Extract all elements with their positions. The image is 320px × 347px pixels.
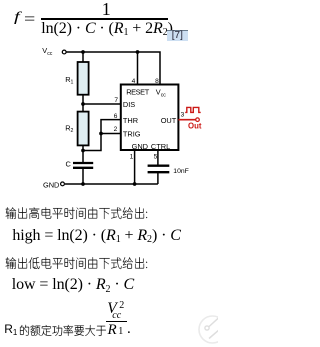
svg-text:1: 1 <box>130 153 134 160</box>
wire pin1 GND <box>134 150 136 184</box>
wire 10nF bottom <box>157 172 159 184</box>
svg-text:1: 1 <box>71 79 74 85</box>
terminal Vcc <box>62 50 66 54</box>
IC U1 555 timer box <box>121 85 179 151</box>
resistor R1 <box>78 62 89 95</box>
junction node C/GND rail <box>81 182 85 186</box>
svg-text:10nF: 10nF <box>173 168 189 175</box>
capacitor 10nF plates <box>148 166 170 173</box>
wire Vcc top rail <box>66 52 160 85</box>
svg-text:2: 2 <box>71 128 74 134</box>
terminal GND <box>61 182 65 186</box>
svg-text:RESET: RESET <box>126 87 150 96</box>
chinese line 3: R1 power rating must exceed <box>4 322 17 336</box>
circuit schematic <box>0 0 218 347</box>
svg-text:GND: GND <box>132 142 148 151</box>
svg-text:Out: Out <box>188 121 202 130</box>
formula low <box>12 276 134 294</box>
svg-text:8: 8 <box>155 78 159 85</box>
junction node pin1/GND rail <box>133 182 137 186</box>
wire DIS pin7 <box>83 103 121 105</box>
svg-text:cc: cc <box>47 51 53 57</box>
reference [7] <box>167 30 188 41</box>
formula Vcc^2 / R1 fraction <box>107 300 116 318</box>
svg-text:4: 4 <box>132 78 136 85</box>
svg-text:GND: GND <box>43 181 59 190</box>
wire pin5 CTRL <box>157 150 159 165</box>
wire R2 bottom to cap <box>82 145 84 162</box>
junction node TRIG branch <box>99 132 103 136</box>
chinese line 2: output low time given by <box>5 256 155 271</box>
wire TRIG pin2 <box>101 133 121 135</box>
junction node Vcc/pin4 <box>136 50 140 54</box>
svg-text:cc: cc <box>161 92 167 98</box>
wire pin4 drop <box>137 52 139 85</box>
svg-text:7: 7 <box>114 97 118 104</box>
svg-text:CTRL: CTRL <box>151 142 170 151</box>
wire R1 top <box>82 52 84 62</box>
wire GND rail <box>65 183 158 185</box>
wire R1-R2 <box>82 95 84 112</box>
svg-text:TRIG: TRIG <box>123 130 141 139</box>
svg-text:THR: THR <box>123 116 138 125</box>
formula f = 1/(ln(2)*C*(R1+2R2)) <box>14 10 20 26</box>
junction node R1/R2/DIS <box>81 102 85 106</box>
svg-text:5: 5 <box>154 153 158 160</box>
wire OUT pin3 red <box>178 119 195 121</box>
wire THR branch <box>83 120 121 151</box>
capacitor C plates <box>73 163 93 168</box>
wire C bottom <box>82 168 84 184</box>
terminal Out red <box>196 118 200 122</box>
svg-text:C: C <box>66 159 72 168</box>
svg-text:3: 3 <box>181 112 185 119</box>
chinese line 1: output high time given by <box>5 206 155 221</box>
faint pencil icon bottom-right corner <box>185 300 218 347</box>
svg-text:2: 2 <box>114 126 118 133</box>
waveform icon red <box>185 107 201 112</box>
junction node Vcc/R1 <box>81 50 85 54</box>
formula high <box>12 227 180 245</box>
resistor R2 <box>78 112 89 146</box>
svg-text:DIS: DIS <box>123 100 135 109</box>
svg-text:OUT: OUT <box>161 116 177 125</box>
junction node R2/C/THR <box>81 149 85 153</box>
svg-text:6: 6 <box>114 113 118 120</box>
